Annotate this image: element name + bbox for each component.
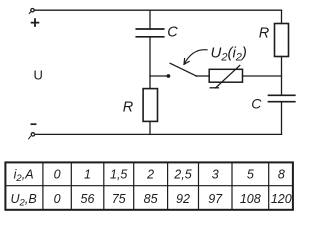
svg-text:8: 8 — [278, 168, 285, 182]
svg-text:C: C — [251, 96, 262, 112]
svg-text:75: 75 — [112, 192, 126, 206]
svg-text:R: R — [123, 100, 134, 116]
svg-text:97: 97 — [208, 192, 223, 206]
svg-text:3: 3 — [212, 168, 219, 182]
svg-text:C: C — [167, 24, 178, 40]
svg-text:108: 108 — [240, 192, 261, 206]
svg-text:U2,B: U2,B — [11, 192, 37, 209]
svg-text:5: 5 — [247, 168, 254, 182]
svg-text:i2,A: i2,A — [14, 168, 34, 185]
svg-text:1,5: 1,5 — [110, 168, 127, 182]
svg-text:1: 1 — [84, 168, 91, 182]
svg-text:U2(i2): U2(i2) — [211, 45, 247, 64]
svg-text:U: U — [34, 68, 43, 83]
svg-text:0: 0 — [54, 192, 61, 206]
svg-text:2: 2 — [146, 168, 154, 182]
svg-text:85: 85 — [144, 192, 158, 206]
svg-text:120: 120 — [271, 192, 292, 206]
svg-text:56: 56 — [81, 192, 95, 206]
svg-text:R: R — [259, 26, 270, 42]
svg-text:2,5: 2,5 — [173, 168, 191, 182]
svg-text:0: 0 — [54, 168, 61, 182]
svg-text:92: 92 — [176, 192, 190, 206]
